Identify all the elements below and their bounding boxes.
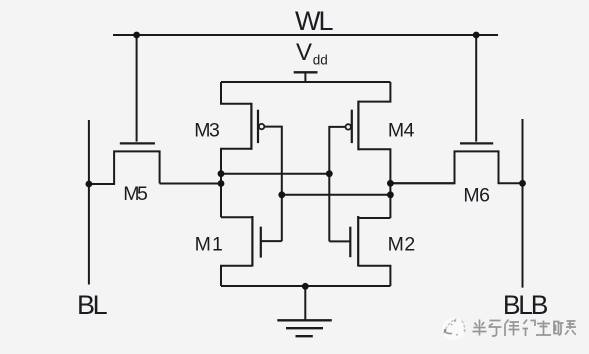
wire M1 source lead (221, 266, 252, 286)
junction BL-M5 (86, 181, 93, 188)
wire M4 source lead (358, 82, 390, 102)
svg-text:WL: WL (295, 6, 333, 36)
wire M4 gate to node A column (329, 127, 345, 241)
transistor M6 access (gate bar) (460, 142, 493, 144)
svg-text:M5: M5 (123, 183, 148, 205)
transistor M1 gate bar (260, 227, 262, 258)
svg-text:M4: M4 (388, 119, 415, 141)
junction BLB-M6 (519, 180, 526, 187)
transistor M2 channel (357, 216, 359, 267)
wire M4 drain lead / node B column (358, 149, 390, 218)
wire BLB vertical (522, 119, 524, 288)
wire M3 drain lead / node A column (221, 149, 251, 218)
wire M6 gate lead from WL (475, 35, 477, 142)
transistor M3 channel (250, 103, 252, 150)
junction WL-M5 (133, 32, 140, 39)
wire Vdd stub (304, 72, 306, 82)
transistor M5 access (gate bar) (120, 142, 155, 144)
svg-text:M2: M2 (388, 234, 416, 256)
transistor M4 gate bar (351, 110, 353, 143)
transistor M4 channel (357, 101, 359, 151)
junction node A upper (218, 170, 225, 177)
wire M5 to node A (160, 183, 221, 185)
svg-text:M3: M3 (194, 119, 219, 141)
transistor M5 body (89, 151, 160, 184)
watermark text 半导体行业观察 (drawn strokes) (473, 320, 577, 337)
transistor M4 bubble (346, 124, 351, 129)
transistor M3 gate bar (257, 110, 259, 143)
wire M2 gate wire (329, 240, 350, 242)
transistor M1 channel (251, 216, 253, 267)
wire node A to M4 gate cross-couple (221, 173, 329, 175)
transistor M6 body (390, 151, 522, 183)
junction WL-M6 (473, 32, 480, 39)
ground symbol bars (277, 319, 332, 321)
wire M1 gate wire (261, 240, 282, 242)
wire M5 gate lead from WL (136, 35, 138, 142)
svg-text:V: V (296, 39, 312, 66)
wire WL horizontal rail (113, 34, 498, 36)
wire M2 source lead (358, 266, 390, 286)
wire ground rail (221, 285, 390, 287)
junction ground rail (302, 283, 309, 290)
svg-text:dd: dd (313, 52, 328, 67)
svg-text:M6: M6 (463, 184, 489, 206)
junction node A lower (218, 180, 225, 187)
wire M3 source lead (221, 82, 251, 104)
junction M3 gate column (278, 191, 285, 198)
svg-text:BL: BL (77, 290, 108, 320)
wire M3 gate column to node B (282, 194, 391, 196)
transistor M2 gate bar (349, 227, 351, 258)
wire ground stub (304, 286, 306, 320)
wire Vdd top rail (221, 81, 390, 83)
wire M2 drain stub (358, 217, 390, 219)
svg-text:BLB: BLB (503, 290, 548, 320)
wire M1 drain stub (221, 216, 252, 218)
svg-text:M1: M1 (195, 234, 225, 256)
power Vdd terminal bar (294, 71, 318, 73)
junction M4 gate column (326, 170, 333, 177)
junction node B upper (387, 180, 394, 187)
wire BL vertical (88, 120, 90, 285)
watermark logo circle (442, 318, 466, 341)
transistor M3 bubble (259, 124, 264, 129)
wire node B to M6 (390, 182, 454, 184)
wire M3 gate to node B column (264, 127, 282, 242)
junction node B lower (387, 191, 394, 198)
